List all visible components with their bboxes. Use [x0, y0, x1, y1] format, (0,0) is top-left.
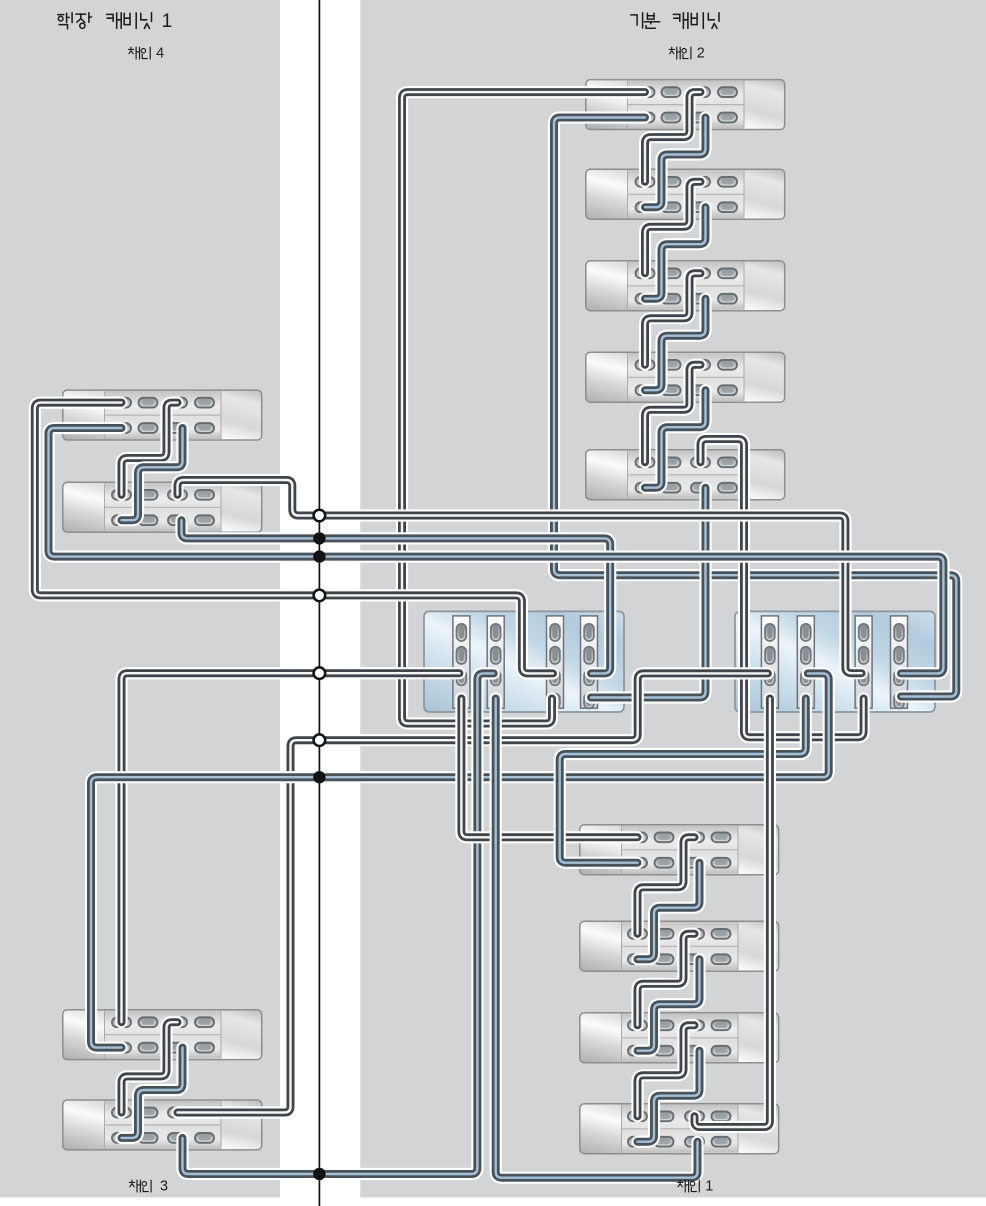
- disk shelf chain1-2: [580, 921, 779, 971]
- wire right card2 port4 to chain1 shelf1 bottom port1: [560, 699, 806, 863]
- wire chain4 shelfA bottom port1 via junction J3 to right card4 port3: [49, 428, 944, 673]
- wire chain2 step dark 3-4: [645, 273, 701, 365]
- disk shelf chain2-2: [586, 169, 785, 219]
- disk shelf chain2-5: [586, 450, 785, 500]
- wire chain3 shelfD bottom port3 via junction J8 to left card2 port3: [183, 673, 494, 1174]
- wire left card1 port4 to chain1 shelf1 top port1: [461, 699, 637, 838]
- wire chain4 shelfB bottom port3 via junction J2 to left card4 port3: [182, 520, 611, 673]
- junction J6 open: [314, 734, 326, 746]
- label base cabinet title part2: [673, 13, 719, 29]
- svg-text:3: 3: [160, 1179, 168, 1195]
- wire chain2 step blue 3-4: [645, 299, 706, 391]
- wire right card3 port4 to chain2 shelf5 top port3: [701, 439, 864, 737]
- wire chain2 step dark 1-2: [645, 92, 701, 182]
- wire chain3 shelfD top port3 via junction J6 to right card1 port3: [178, 673, 768, 1112]
- label chain 4: [129, 47, 151, 59]
- disk shelf chain2-4: [586, 352, 785, 402]
- wire right card4 port4 to chain2 shelf1 bottom port1: [554, 118, 956, 697]
- wire chain1 step dark 1-2: [638, 837, 695, 934]
- label base cabinet title: [631, 13, 660, 28]
- junction J5 open: [314, 667, 326, 679]
- wire chain2 step blue 2-3: [645, 207, 706, 299]
- disk shelf chain4-A: [63, 390, 262, 440]
- label chain 1: [678, 1180, 700, 1192]
- wire chain4 step dark A-B: [122, 403, 178, 495]
- junction J2 dot: [313, 532, 325, 544]
- disk shelf chain1-3: [580, 1013, 779, 1063]
- svg-text:4: 4: [156, 46, 164, 62]
- wire chain4 step blue A-B: [122, 428, 183, 520]
- controller right: [735, 611, 935, 712]
- disk shelf chain1-4: [580, 1104, 779, 1154]
- junction J1 open: [314, 510, 326, 522]
- wire chain1 step blue 2-3: [638, 959, 700, 1050]
- wire left card4 port4 to chain2 shelf5 bottom port3: [591, 488, 706, 698]
- wire right card1 port4 to chain1 shelf4 top port3: [695, 699, 770, 1128]
- disk shelf chain2-1: [586, 80, 785, 130]
- wire chain2 step blue 1-2: [645, 118, 706, 208]
- wire chain4 shelfA top port1 via junction J4 to left card3 port3: [35, 403, 553, 674]
- junction J4 open: [314, 590, 326, 602]
- disk shelf chain3-D: [63, 1100, 262, 1150]
- label chain 3: [129, 1180, 151, 1192]
- wire chain1 step dark 2-3: [638, 934, 695, 1026]
- label expansion cabinet 1 title part2: [107, 13, 152, 29]
- wire chain3 shelfC top port1 via junction J5 to left card1 port3: [122, 673, 460, 1022]
- junction J3 dot: [313, 550, 325, 562]
- svg-text:2: 2: [697, 46, 705, 62]
- junction J7 dot: [313, 771, 325, 783]
- wire chain3 shelfC bottom port1 via junction J7 to right card2 port3: [91, 673, 829, 1047]
- wire chain4 shelfB top port3 via junction J1 to right card3 port3: [178, 480, 862, 673]
- right cabinet panel: [360, 0, 986, 1198]
- controller left: [424, 611, 624, 712]
- disk shelf chain1-1: [580, 825, 779, 875]
- disk shelf chain2-3: [586, 261, 785, 311]
- wire left card2 port4 to chain1 shelf4 bottom port3: [496, 699, 698, 1178]
- wire chain3 step dark C-D: [122, 1022, 178, 1112]
- disk shelf chain3-C: [63, 1010, 262, 1060]
- svg-text:1: 1: [162, 11, 173, 32]
- wire chain3 step blue C-D: [122, 1048, 183, 1138]
- label expansion cabinet 1 title: [58, 13, 92, 29]
- wire chain1 step blue 1-2: [638, 863, 700, 960]
- wire chain2 step dark 4-5: [645, 365, 701, 463]
- wire chain2 step dark 2-3: [645, 182, 701, 273]
- left cabinet panel: [0, 0, 280, 1198]
- cabinet divider line: [318, 0, 320, 1206]
- svg-text:1: 1: [705, 1179, 713, 1195]
- wire left card3 port4 to chain2 shelf1 top port1: [402, 92, 645, 723]
- wire chain1 step dark 3-4: [638, 1025, 695, 1116]
- disk shelf chain4-B: [63, 482, 262, 532]
- junction J8 dot: [313, 1168, 325, 1180]
- label chain 2: [669, 47, 691, 59]
- wire chain2 step blue 4-5: [645, 390, 706, 488]
- wire chain1 step blue 3-4: [638, 1051, 700, 1142]
